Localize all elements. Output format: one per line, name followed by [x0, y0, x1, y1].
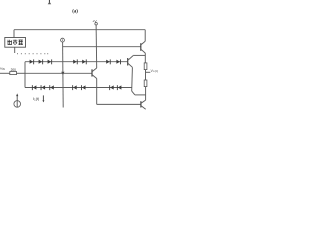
wire jog horizontal: [135, 94, 146, 96]
terminal circle with dot: [61, 38, 65, 42]
wire Q3 emitter to Q5 base: [97, 103, 141, 105]
current source arrow: [16, 95, 18, 107]
wire input branch vertical: [24, 62, 26, 88]
transistor Q2 base bar: [127, 58, 129, 66]
transistor Q3 collector: [92, 68, 96, 72]
wire Q1 collector to rail: [144, 30, 146, 42]
svg-text:I1(t): I1(t): [33, 96, 39, 102]
wire below sensor box: [14, 47, 16, 53]
diode D6: [106, 59, 111, 64]
wire Q2 emitter down: [131, 67, 134, 91]
wire middle (node to Q3 base): [25, 72, 92, 74]
wire rail to sensor box: [13, 30, 15, 38]
wire resistor to node: [17, 72, 26, 74]
diode D7: [116, 59, 121, 64]
transistor Q3 emitter: [92, 75, 96, 79]
wire Q1 emitter to node: [144, 53, 146, 63]
transistor Q5 base bar: [140, 101, 142, 107]
transistor Q2 emitter: [128, 63, 132, 67]
sensor box label char 2: [13, 40, 17, 45]
resistor 200: [10, 72, 17, 75]
wire top diode row: [25, 61, 128, 63]
wire jog to lower node: [132, 91, 135, 95]
transistor Q1 emitter: [141, 49, 145, 53]
diode D3: [48, 59, 53, 64]
wire R2 down to Q5 collector: [145, 87, 147, 101]
diode D9: [41, 85, 46, 90]
svg-text:Vo(t): Vo(t): [151, 69, 159, 73]
wire R1 to R2: [145, 70, 147, 80]
current direction arrow at label: [42, 95, 44, 101]
wire output tap: [146, 71, 151, 73]
transistor Q5 emitter: [141, 106, 146, 110]
svg-text:vIN: vIN: [0, 67, 5, 72]
svg-text:(a): (a): [72, 9, 78, 14]
resistor R2: [144, 80, 147, 87]
diode D1: [30, 59, 35, 64]
wire input left: [0, 72, 10, 74]
current source circle: [14, 101, 21, 108]
diode D8: [32, 85, 37, 90]
diode D4: [73, 59, 78, 64]
wire supply terminal down: [95, 25, 98, 68]
wire bottom diode row: [25, 87, 132, 89]
wire Q3 emitter down: [96, 79, 98, 105]
resistor R1: [144, 63, 147, 70]
diode D11: [72, 85, 77, 90]
diode D14: [117, 85, 122, 90]
sensor box label char 3: [18, 40, 23, 45]
top supply rail wire: [14, 29, 145, 31]
bias rail wire: [63, 46, 141, 48]
diode D2: [39, 59, 44, 64]
transistor Q3 base bar: [91, 69, 93, 76]
sensor box label char 1: [7, 40, 11, 45]
diode D12: [81, 85, 86, 90]
transistor Q1 base bar: [140, 43, 142, 51]
wire Q2 collector to node: [133, 54, 145, 56]
diode D10: [49, 85, 54, 90]
wire terminal down through rows: [62, 42, 65, 108]
dotted coupling line: [17, 52, 48, 55]
diode D13: [109, 85, 114, 90]
current direction arrow at mid junction: [61, 72, 64, 76]
sensor box: [5, 38, 26, 48]
diode D5: [82, 59, 87, 64]
transistor Q5 collector: [141, 100, 146, 103]
supply terminal circle: [95, 22, 98, 25]
transistor Q1 collector: [141, 41, 145, 44]
cropped symbol at top edge: [48, 0, 52, 4]
transistor Q2 collector: [128, 56, 133, 61]
